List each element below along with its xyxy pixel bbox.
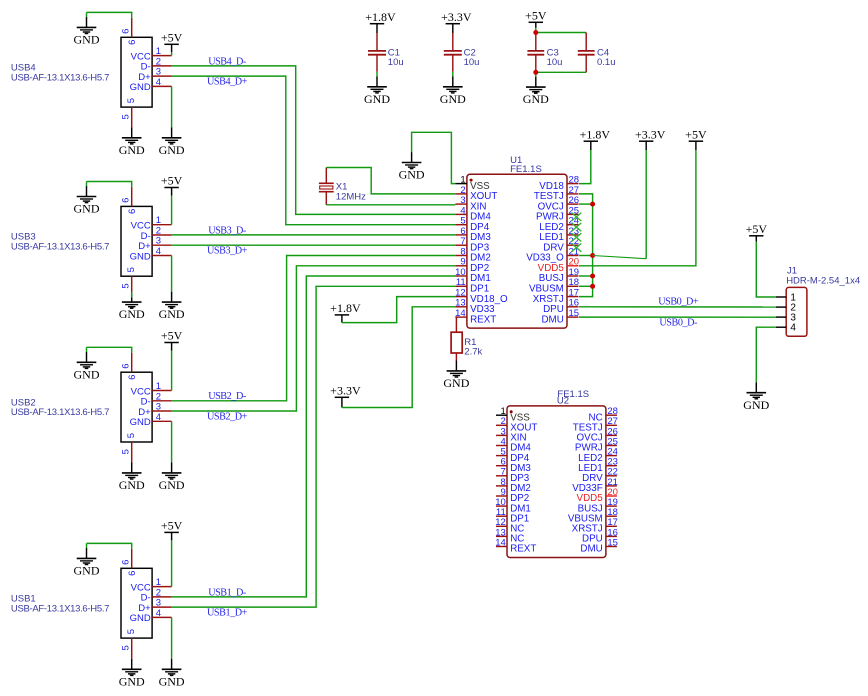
svg-text:4: 4	[156, 608, 161, 619]
svg-text:4: 4	[156, 412, 161, 423]
svg-text:GND: GND	[74, 33, 100, 47]
svg-text:10u: 10u	[464, 57, 480, 68]
svg-text:GND: GND	[119, 307, 145, 321]
svg-text:5: 5	[126, 433, 137, 438]
svg-text:+5V: +5V	[161, 174, 183, 188]
svg-text:REXT: REXT	[470, 314, 496, 325]
svg-text:GND: GND	[159, 307, 185, 321]
svg-text:USB-AF-13.1X13.6-H5.7: USB-AF-13.1X13.6-H5.7	[11, 241, 109, 252]
svg-text:USB1_D-: USB1_D-	[208, 587, 247, 598]
svg-text:U2: U2	[557, 395, 569, 406]
svg-text:6: 6	[127, 40, 138, 45]
svg-text:12MHz: 12MHz	[336, 191, 366, 202]
svg-text:6: 6	[127, 375, 138, 380]
svg-text:USB0_D-: USB0_D-	[659, 317, 698, 328]
svg-text:GND: GND	[130, 82, 151, 93]
svg-text:GND: GND	[364, 92, 390, 106]
svg-text:6: 6	[121, 560, 132, 565]
svg-text:0.1u: 0.1u	[597, 57, 616, 68]
svg-text:+1.8V: +1.8V	[365, 10, 396, 24]
svg-text:6: 6	[121, 363, 132, 368]
svg-text:+3.3V: +3.3V	[635, 127, 666, 141]
svg-text:+5V: +5V	[161, 329, 183, 343]
svg-text:+5V: +5V	[525, 9, 547, 23]
svg-text:4: 4	[156, 77, 161, 88]
svg-text:5: 5	[126, 629, 137, 634]
svg-text:GND: GND	[119, 143, 145, 157]
svg-text:USB2_D+: USB2_D+	[207, 411, 248, 422]
svg-text:GND: GND	[119, 674, 145, 688]
svg-text:+1.8V: +1.8V	[330, 301, 361, 315]
svg-text:+5V: +5V	[746, 222, 768, 236]
svg-text:DMU: DMU	[541, 314, 563, 325]
svg-text:5: 5	[126, 98, 137, 103]
svg-text:14: 14	[495, 537, 506, 548]
svg-text:6: 6	[127, 571, 138, 576]
svg-text:+5V: +5V	[685, 127, 707, 141]
svg-text:15: 15	[569, 308, 580, 319]
svg-text:GND: GND	[399, 168, 425, 182]
svg-text:2.7k: 2.7k	[464, 346, 482, 357]
svg-text:DMU: DMU	[580, 544, 602, 555]
svg-text:USB-AF-13.1X13.6-H5.7: USB-AF-13.1X13.6-H5.7	[11, 72, 109, 83]
svg-text:+1.8V: +1.8V	[580, 127, 611, 141]
svg-text:+3.3V: +3.3V	[330, 384, 361, 398]
svg-text:USB1_D+: USB1_D+	[207, 607, 248, 618]
svg-text:GND: GND	[74, 202, 100, 216]
svg-text:4: 4	[156, 246, 161, 257]
svg-text:15: 15	[607, 537, 618, 548]
svg-text:+5V: +5V	[161, 519, 183, 533]
svg-text:HDR-M-2.54_1x4: HDR-M-2.54_1x4	[786, 275, 860, 286]
svg-text:GND: GND	[523, 92, 549, 106]
svg-text:GND: GND	[159, 478, 185, 492]
svg-text:GND: GND	[119, 478, 145, 492]
svg-text:5: 5	[121, 114, 132, 119]
svg-text:4: 4	[790, 323, 796, 334]
svg-text:5: 5	[126, 267, 137, 272]
svg-text:USB-AF-13.1X13.6-H5.7: USB-AF-13.1X13.6-H5.7	[11, 407, 109, 418]
svg-text:10u: 10u	[547, 57, 563, 68]
svg-text:USB2_D-: USB2_D-	[208, 391, 247, 402]
svg-text:GND: GND	[130, 251, 151, 262]
svg-text:USB4_D+: USB4_D+	[207, 76, 248, 87]
svg-text:USB3_D+: USB3_D+	[207, 246, 248, 257]
svg-text:GND: GND	[130, 613, 151, 624]
svg-text:GND: GND	[743, 398, 769, 412]
svg-text:+5V: +5V	[161, 31, 183, 45]
svg-text:5: 5	[121, 645, 132, 650]
svg-text:USB3_D-: USB3_D-	[208, 225, 247, 236]
svg-text:GND: GND	[440, 92, 466, 106]
svg-text:GND: GND	[159, 143, 185, 157]
svg-text:6: 6	[121, 198, 132, 203]
svg-text:USB-AF-13.1X13.6-H5.7: USB-AF-13.1X13.6-H5.7	[11, 603, 109, 614]
svg-text:5: 5	[121, 449, 132, 454]
svg-text:REXT: REXT	[510, 544, 536, 555]
svg-text:6: 6	[127, 209, 138, 214]
svg-text:GND: GND	[159, 674, 185, 688]
svg-text:10u: 10u	[388, 57, 404, 68]
svg-text:GND: GND	[443, 376, 469, 390]
svg-text:USB4_D-: USB4_D-	[208, 56, 247, 67]
svg-text:USB0_D+: USB0_D+	[658, 297, 699, 308]
svg-text:6: 6	[121, 29, 132, 34]
svg-text:GND: GND	[74, 367, 100, 381]
svg-text:5: 5	[121, 283, 132, 288]
svg-text:GND: GND	[74, 564, 100, 578]
svg-text:+3.3V: +3.3V	[441, 10, 472, 24]
svg-text:GND: GND	[130, 417, 151, 428]
svg-text:FE1.1S: FE1.1S	[510, 164, 542, 175]
